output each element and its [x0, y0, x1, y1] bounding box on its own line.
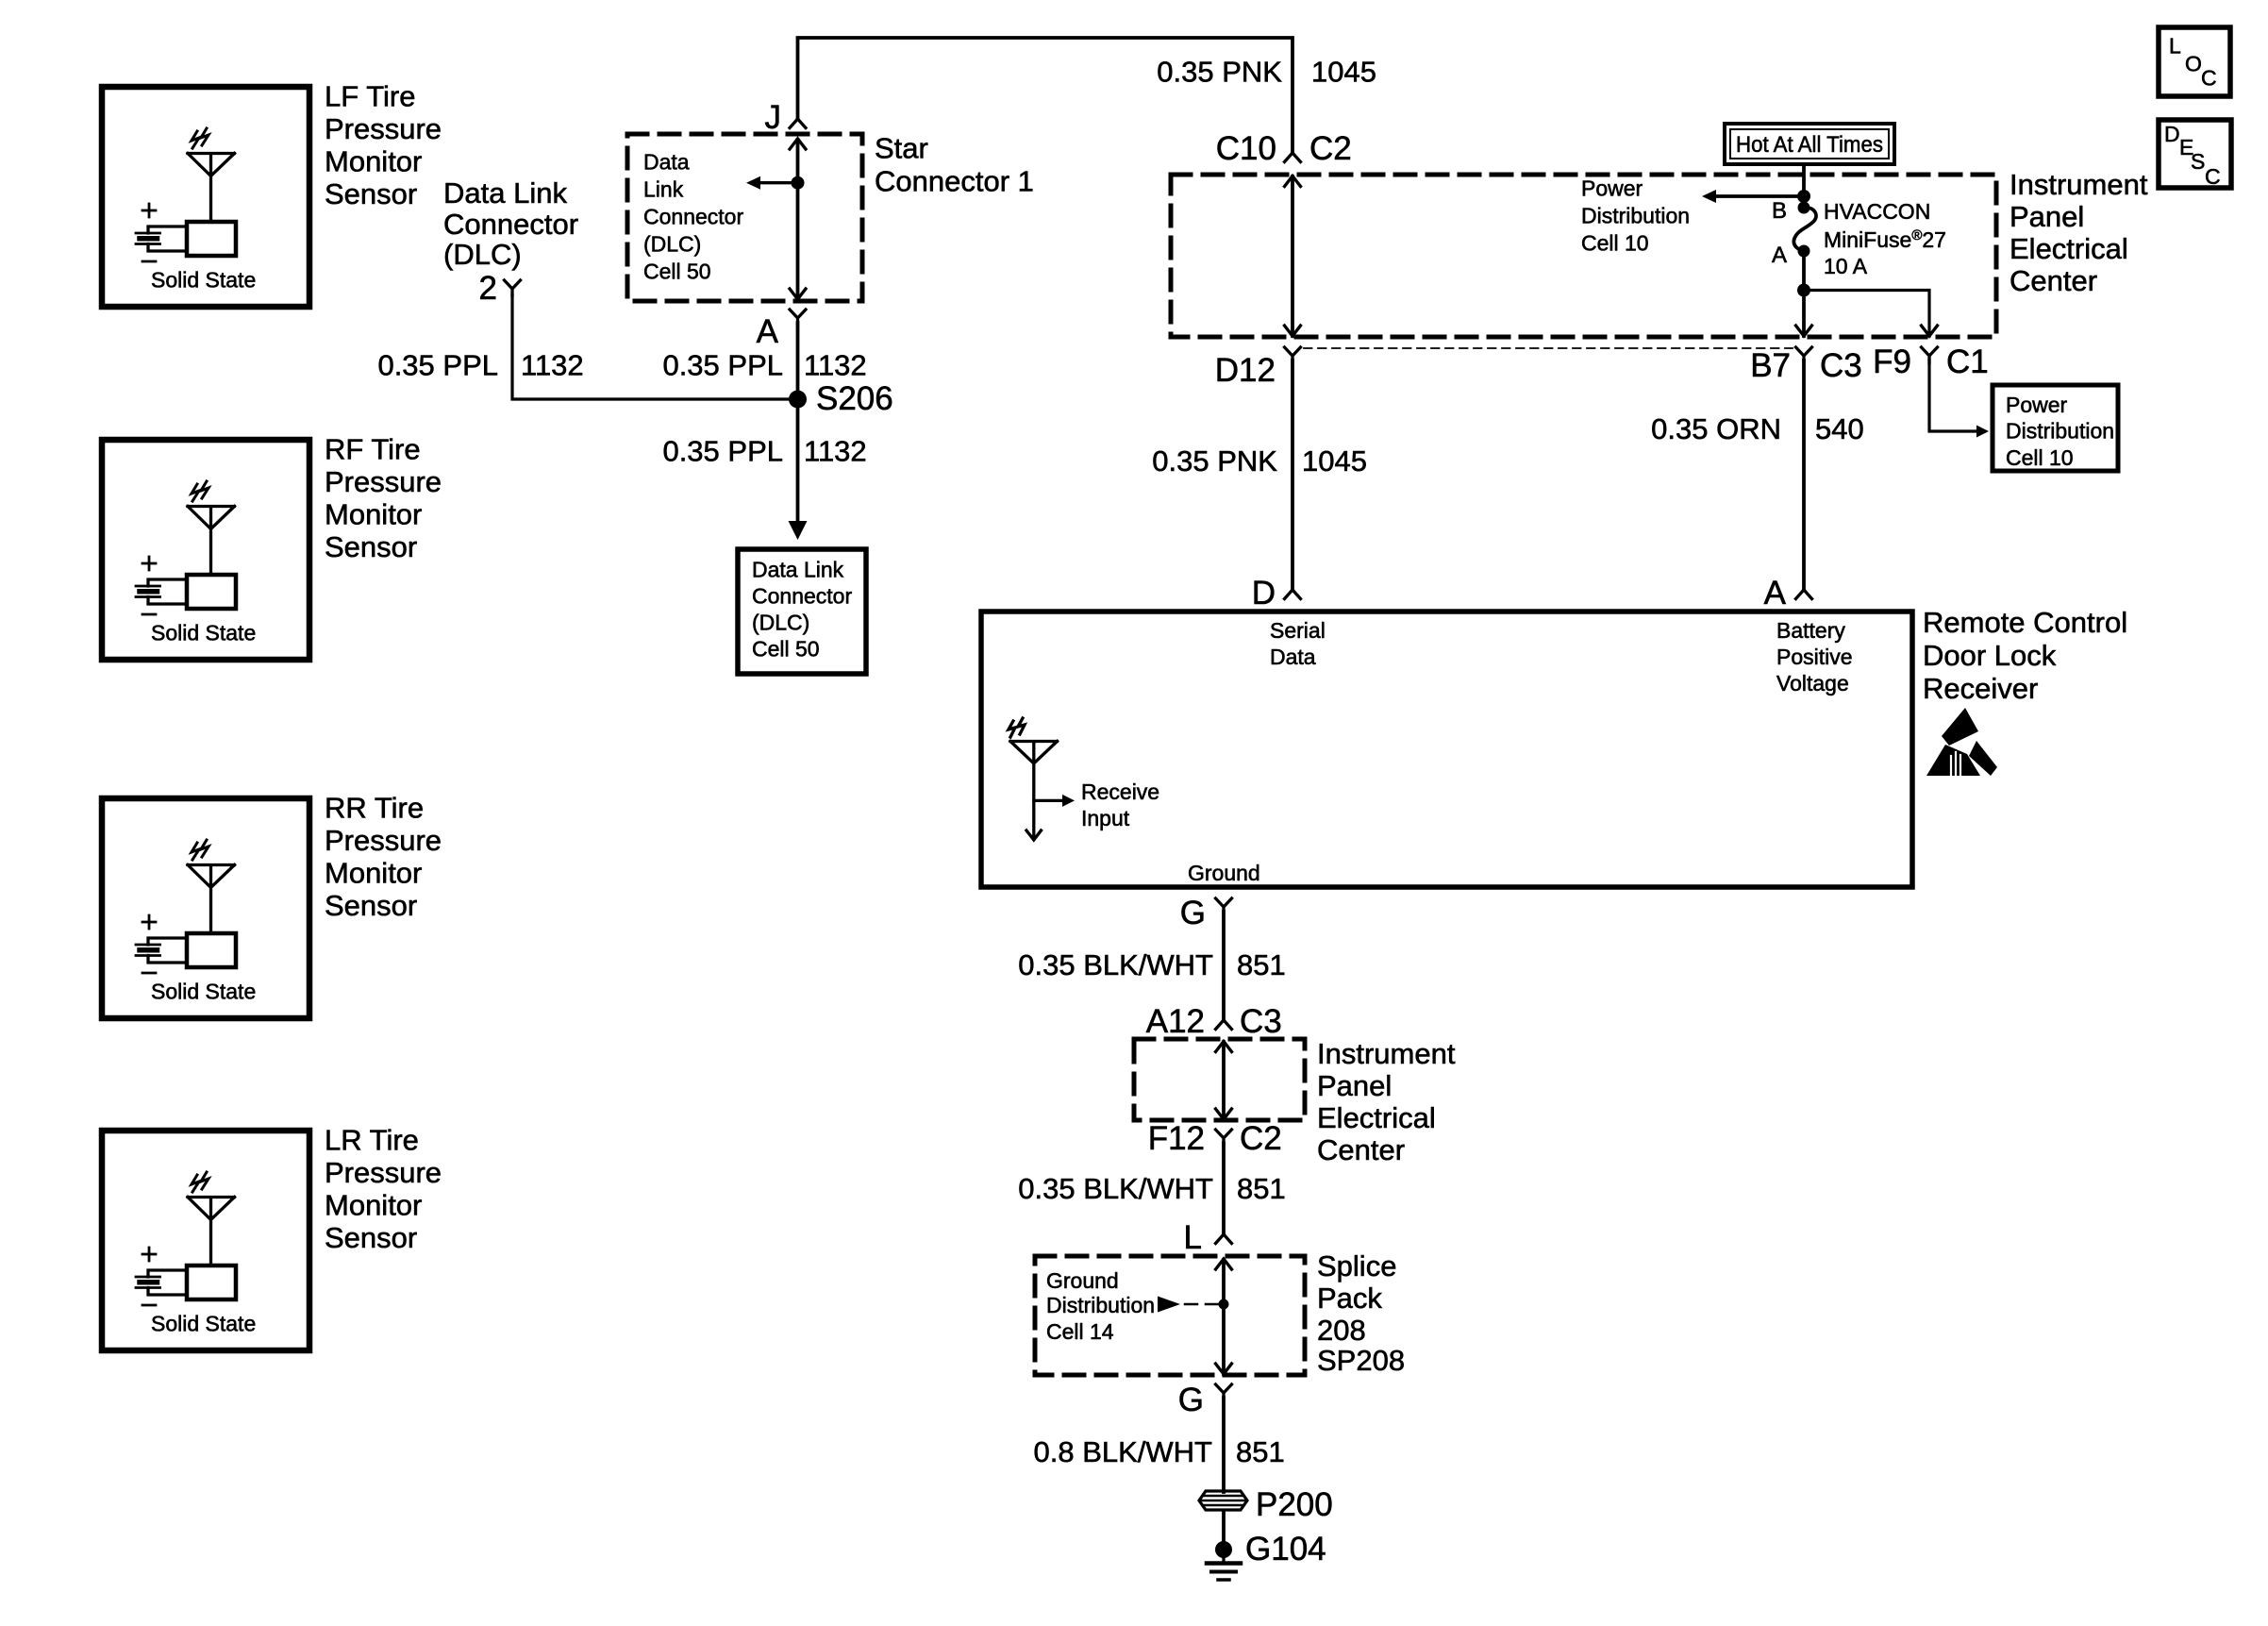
svg-text:Connector: Connector — [443, 208, 578, 241]
svg-text:1132: 1132 — [521, 349, 584, 382]
svg-text:A: A — [1772, 243, 1787, 268]
svg-text:Solid State: Solid State — [151, 980, 256, 1004]
svg-text:(DLC): (DLC) — [643, 232, 701, 257]
svg-text:Sensor: Sensor — [325, 889, 417, 922]
svg-text:Ground: Ground — [1188, 861, 1260, 885]
svg-text:G104: G104 — [1245, 1531, 1326, 1567]
svg-text:B7: B7 — [1750, 347, 1791, 384]
label Splice Pack 208 SP208 — [1317, 1249, 1405, 1377]
svg-text:Remote Control: Remote Control — [1923, 606, 2127, 639]
wire 0.35 PPL 1132 from DLC pin 2 — [512, 295, 798, 399]
wire label 0.35 PNK 1045 (top) — [1157, 55, 1376, 88]
svg-text:0.35 BLK/WHT: 0.35 BLK/WHT — [1018, 948, 1213, 981]
star connector inner annotation — [643, 150, 743, 284]
wire label 0.35 BLK/WHT 851 (lower) — [1018, 1172, 1285, 1205]
pin G of splice pack — [1178, 1382, 1232, 1418]
svg-text:Monitor: Monitor — [325, 1189, 422, 1222]
svg-text:Cell 50: Cell 50 — [643, 260, 711, 284]
svg-text:C2: C2 — [1309, 130, 1352, 167]
svg-text:(DLC): (DLC) — [443, 238, 522, 271]
label Instrument Panel Electrical Center (small box) — [1317, 1037, 1456, 1166]
svg-text:Cell 14: Cell 14 — [1046, 1319, 1114, 1344]
svg-text:Positive: Positive — [1776, 645, 1853, 669]
svg-text:C2: C2 — [1240, 1120, 1282, 1157]
svg-text:Hot At All Times: Hot At All Times — [1736, 132, 1883, 158]
svg-text:MiniFuse®27: MiniFuse®27 — [1824, 227, 1946, 252]
arrow to Data Link Connector cell 50 — [746, 176, 798, 190]
svg-text:Distribution: Distribution — [1046, 1293, 1155, 1317]
svg-text:540: 540 — [1815, 412, 1864, 445]
wire label 0.35 PNK 1045 (mid) — [1152, 444, 1367, 478]
connector face dashes — [1304, 347, 1793, 349]
svg-text:Door Lock: Door Lock — [1923, 639, 2057, 672]
Instrument Panel Electrical Center dashed box — [1171, 175, 1996, 337]
label LR Tire Pressure Monitor Sensor — [325, 1124, 442, 1255]
svg-text:RR Tire: RR Tire — [325, 792, 424, 825]
wire 0.35 BLK/WHT 851 (upper) — [1222, 912, 1226, 1020]
svg-text:0.35 PPL: 0.35 PPL — [377, 349, 498, 382]
svg-text:Monitor: Monitor — [325, 857, 422, 890]
svg-text:Pressure: Pressure — [325, 112, 442, 145]
svg-text:0.35 PNK: 0.35 PNK — [1152, 444, 1277, 478]
svg-text:Distribution: Distribution — [1581, 204, 1690, 228]
svg-text:Pressure: Pressure — [325, 465, 442, 498]
wire label 0.35 PPL 1132 (A wire) — [662, 349, 866, 382]
svg-text:Pack: Pack — [1317, 1282, 1382, 1315]
receiver antenna — [1009, 718, 1058, 840]
svg-text:Sensor: Sensor — [325, 1221, 417, 1254]
pin A of receiver — [1764, 575, 1812, 612]
LR Tire Pressure Monitor Sensor box — [102, 1131, 309, 1350]
svg-text:0.35 PPL: 0.35 PPL — [662, 435, 783, 468]
svg-text:A: A — [1764, 575, 1787, 612]
connector A12 / C3 — [1146, 1003, 1282, 1040]
svg-text:O: O — [2185, 52, 2202, 76]
svg-text:HVACCON: HVACCON — [1824, 199, 1930, 224]
svg-text:Sensor: Sensor — [325, 177, 417, 210]
connector F12 / C2 — [1148, 1120, 1282, 1157]
svg-text:Monitor: Monitor — [325, 498, 422, 531]
pin annotation Serial Data — [1270, 618, 1326, 669]
Hot At All Times tag — [1725, 124, 1894, 164]
svg-text:Data Link: Data Link — [443, 176, 567, 210]
Data Link Connector (DLC) label — [443, 176, 578, 271]
RR Tire Pressure Monitor Sensor box — [102, 798, 309, 1018]
svg-text:Center: Center — [1317, 1133, 1405, 1166]
svg-text:SP208: SP208 — [1317, 1344, 1405, 1377]
annotation Power Distribution Cell 10 (in box) — [1581, 176, 1690, 256]
wire 0.35 ORN 540 to A — [1802, 360, 1806, 590]
fuse element — [1793, 208, 1816, 251]
label Instrument Panel Electrical Center (top) — [2010, 168, 2148, 297]
wire 0.35 BLK/WHT 851 (lower) — [1222, 1143, 1226, 1234]
annotation Ground Distribution Cell 14 — [1046, 1268, 1155, 1344]
svg-text:Connector: Connector — [752, 584, 852, 609]
svg-text:Data Link: Data Link — [752, 558, 844, 582]
ESD sensitivity symbol — [1926, 708, 1997, 776]
svg-text:LR Tire: LR Tire — [325, 1124, 419, 1157]
wire label 0.35 PPL 1132 (left) — [377, 349, 583, 382]
svg-text:851: 851 — [1236, 1435, 1285, 1468]
svg-text:Data: Data — [643, 150, 690, 175]
label RF Tire Pressure Monitor Sensor — [325, 433, 442, 564]
svg-text:S: S — [2191, 149, 2205, 174]
svg-text:B: B — [1772, 198, 1787, 224]
pin D of receiver — [1252, 575, 1301, 612]
ground distribution arrow and tap — [1158, 1297, 1229, 1313]
arrow to Power Distribution Cell 10 (left) — [1702, 190, 1804, 203]
pin L of splice pack — [1184, 1219, 1232, 1256]
svg-text:C3: C3 — [1240, 1003, 1282, 1040]
svg-text:Power: Power — [1581, 176, 1643, 201]
svg-text:Data: Data — [1270, 645, 1316, 669]
node J — [765, 99, 807, 136]
pin annotation Battery Positive Voltage — [1776, 618, 1853, 696]
DESC reference box — [2159, 120, 2231, 189]
LOC reference box — [2159, 27, 2230, 96]
svg-text:Ground: Ground — [1046, 1268, 1119, 1293]
fuse terminal A — [1772, 243, 1810, 268]
svg-text:RF Tire: RF Tire — [325, 433, 421, 466]
branch wire to F9 — [1804, 291, 1938, 337]
ground G104 — [1207, 1531, 1326, 1580]
wire 0.35 PNK 1045 top run — [798, 38, 1293, 153]
connector D12 — [1215, 347, 1301, 389]
svg-text:Power: Power — [2006, 393, 2068, 417]
svg-text:Receiver: Receiver — [1923, 672, 2038, 705]
svg-text:Pressure: Pressure — [325, 824, 442, 857]
svg-text:Instrument: Instrument — [1317, 1037, 1456, 1070]
svg-text:0.35 PNK: 0.35 PNK — [1157, 55, 1282, 88]
wire 0.35 PPL 1132 down to DLC — [789, 399, 808, 540]
svg-text:Serial: Serial — [1270, 618, 1326, 643]
wire to ground — [1222, 1513, 1226, 1542]
svg-text:G: G — [1180, 895, 1206, 931]
svg-text:F9: F9 — [1873, 344, 1911, 380]
wire label 0.35 BLK/WHT 851 (upper) — [1018, 948, 1285, 981]
pin G of receiver — [1180, 895, 1232, 931]
svg-text:2: 2 — [479, 270, 497, 307]
svg-text:Monitor: Monitor — [325, 145, 422, 178]
fuse annotation HVACCON MiniFuse 27 10 A — [1824, 199, 1946, 278]
junction dot in star connector — [792, 176, 805, 190]
svg-text:10 A: 10 A — [1824, 254, 1868, 278]
svg-text:Splice: Splice — [1317, 1249, 1396, 1282]
connector pin 2 of DLC — [479, 270, 521, 307]
wire from fuse A down — [1796, 251, 1812, 336]
wire from C1 to power distribution — [1929, 360, 1989, 438]
svg-text:Solid State: Solid State — [151, 1312, 256, 1336]
svg-text:F12: F12 — [1148, 1120, 1205, 1157]
svg-text:P200: P200 — [1256, 1486, 1333, 1523]
svg-text:LF Tire: LF Tire — [325, 80, 415, 113]
svg-text:L: L — [2169, 34, 2181, 59]
Remote Control Door Lock Receiver box — [981, 612, 1912, 887]
svg-text:Cell 10: Cell 10 — [1581, 231, 1649, 256]
svg-text:L: L — [1184, 1219, 1202, 1256]
svg-text:D12: D12 — [1215, 352, 1276, 389]
pass-through grommet P200 — [1199, 1486, 1333, 1523]
svg-text:Battery: Battery — [1776, 618, 1845, 643]
svg-text:D: D — [1252, 575, 1276, 612]
junction to F9 branch — [1797, 284, 1810, 297]
svg-text:J: J — [765, 99, 782, 136]
wire 0.8 BLK/WHT 851 — [1222, 1398, 1226, 1492]
svg-text:851: 851 — [1237, 948, 1286, 981]
svg-text:C1: C1 — [1946, 344, 1989, 380]
svg-text:Link: Link — [643, 177, 684, 202]
svg-text:C: C — [2201, 66, 2217, 91]
Power Distribution Cell 10 box (right) — [1993, 385, 2118, 471]
connector C10 / C2 — [1216, 130, 1352, 167]
svg-text:Connector 1: Connector 1 — [875, 165, 1034, 198]
label RR Tire Pressure Monitor Sensor — [325, 792, 442, 923]
svg-text:Solid State: Solid State — [151, 621, 256, 645]
svg-text:851: 851 — [1237, 1172, 1286, 1205]
svg-text:Electrical: Electrical — [1317, 1101, 1436, 1134]
junction dot to power distribution — [1797, 190, 1810, 203]
receive input arrow — [1034, 779, 1159, 830]
star connector 1 dashed box — [627, 134, 862, 301]
svg-text:Connector: Connector — [643, 205, 743, 229]
svg-text:S206: S206 — [816, 380, 893, 417]
svg-text:0.8 BLK/WHT: 0.8 BLK/WHT — [1034, 1435, 1213, 1468]
svg-text:D: D — [2164, 122, 2180, 146]
svg-text:G: G — [1178, 1382, 1204, 1418]
svg-text:Receive: Receive — [1081, 779, 1159, 804]
wire label 0.35 ORN 540 — [1651, 412, 1864, 445]
svg-text:208: 208 — [1317, 1314, 1366, 1347]
wire from Hot At All Times into IPEC — [1802, 164, 1806, 208]
svg-text:1045: 1045 — [1311, 55, 1376, 88]
svg-text:Center: Center — [2010, 264, 2097, 297]
wire label 0.35 PPL 1132 (lower) — [662, 435, 866, 468]
connector B7 / C3 — [1750, 347, 1862, 384]
wire through IPEC small box — [1216, 1042, 1232, 1120]
svg-text:Instrument: Instrument — [2010, 168, 2148, 201]
svg-text:Panel: Panel — [2010, 200, 2084, 233]
svg-text:Distribution: Distribution — [2006, 419, 2114, 444]
label Star Connector 1 — [875, 132, 1034, 198]
wire through splice pack — [1216, 1259, 1232, 1374]
wire 0.35 PPL 1132 from A to S206 — [796, 323, 800, 399]
wire label 0.8 BLK/WHT 851 — [1034, 1435, 1285, 1468]
svg-text:Panel: Panel — [1317, 1069, 1392, 1102]
svg-text:0.35 PPL: 0.35 PPL — [662, 349, 783, 382]
svg-text:Star: Star — [875, 132, 928, 165]
label Remote Control Door Lock Receiver — [1923, 606, 2127, 705]
svg-text:Cell 10: Cell 10 — [2006, 445, 2074, 470]
splice S206 — [789, 380, 893, 417]
svg-text:1045: 1045 — [1302, 444, 1367, 478]
wire inside star connector — [790, 139, 806, 299]
LF Tire Pressure Monitor Sensor box — [102, 87, 309, 307]
svg-text:Cell 50: Cell 50 — [752, 637, 820, 662]
svg-text:Sensor: Sensor — [325, 530, 417, 563]
connector F9 / C1 — [1873, 344, 1989, 380]
Instrument Panel Electrical Center small dashed box — [1134, 1039, 1305, 1120]
svg-text:C10: C10 — [1216, 130, 1276, 167]
svg-text:Input: Input — [1081, 806, 1130, 830]
wire D12 inside IPEC — [1285, 176, 1301, 337]
svg-text:C: C — [2205, 164, 2221, 189]
svg-text:A: A — [757, 313, 779, 350]
Data Link Connector (DLC) Cell 50 box — [738, 549, 866, 674]
svg-text:Solid State: Solid State — [151, 268, 256, 293]
Splice Pack 208 dashed box — [1035, 1256, 1305, 1375]
svg-text:0.35 BLK/WHT: 0.35 BLK/WHT — [1018, 1172, 1213, 1205]
label LF Tire Pressure Monitor Sensor — [325, 80, 442, 211]
fuse HVACCON MiniFuse 27 terminal B — [1772, 198, 1810, 224]
svg-text:1132: 1132 — [804, 435, 867, 468]
svg-text:(DLC): (DLC) — [752, 611, 809, 635]
svg-text:A12: A12 — [1146, 1003, 1205, 1040]
svg-text:1132: 1132 — [804, 349, 867, 382]
svg-text:C3: C3 — [1820, 347, 1862, 384]
svg-text:Voltage: Voltage — [1776, 671, 1849, 696]
RF Tire Pressure Monitor Sensor box — [102, 440, 309, 660]
annotation Ground — [1188, 861, 1260, 885]
wire 0.35 PNK 1045 to D — [1291, 360, 1294, 590]
svg-text:Pressure: Pressure — [325, 1156, 442, 1189]
svg-text:Electrical: Electrical — [2010, 232, 2128, 265]
node A below star connector — [757, 310, 806, 350]
svg-text:0.35 ORN: 0.35 ORN — [1651, 412, 1781, 445]
